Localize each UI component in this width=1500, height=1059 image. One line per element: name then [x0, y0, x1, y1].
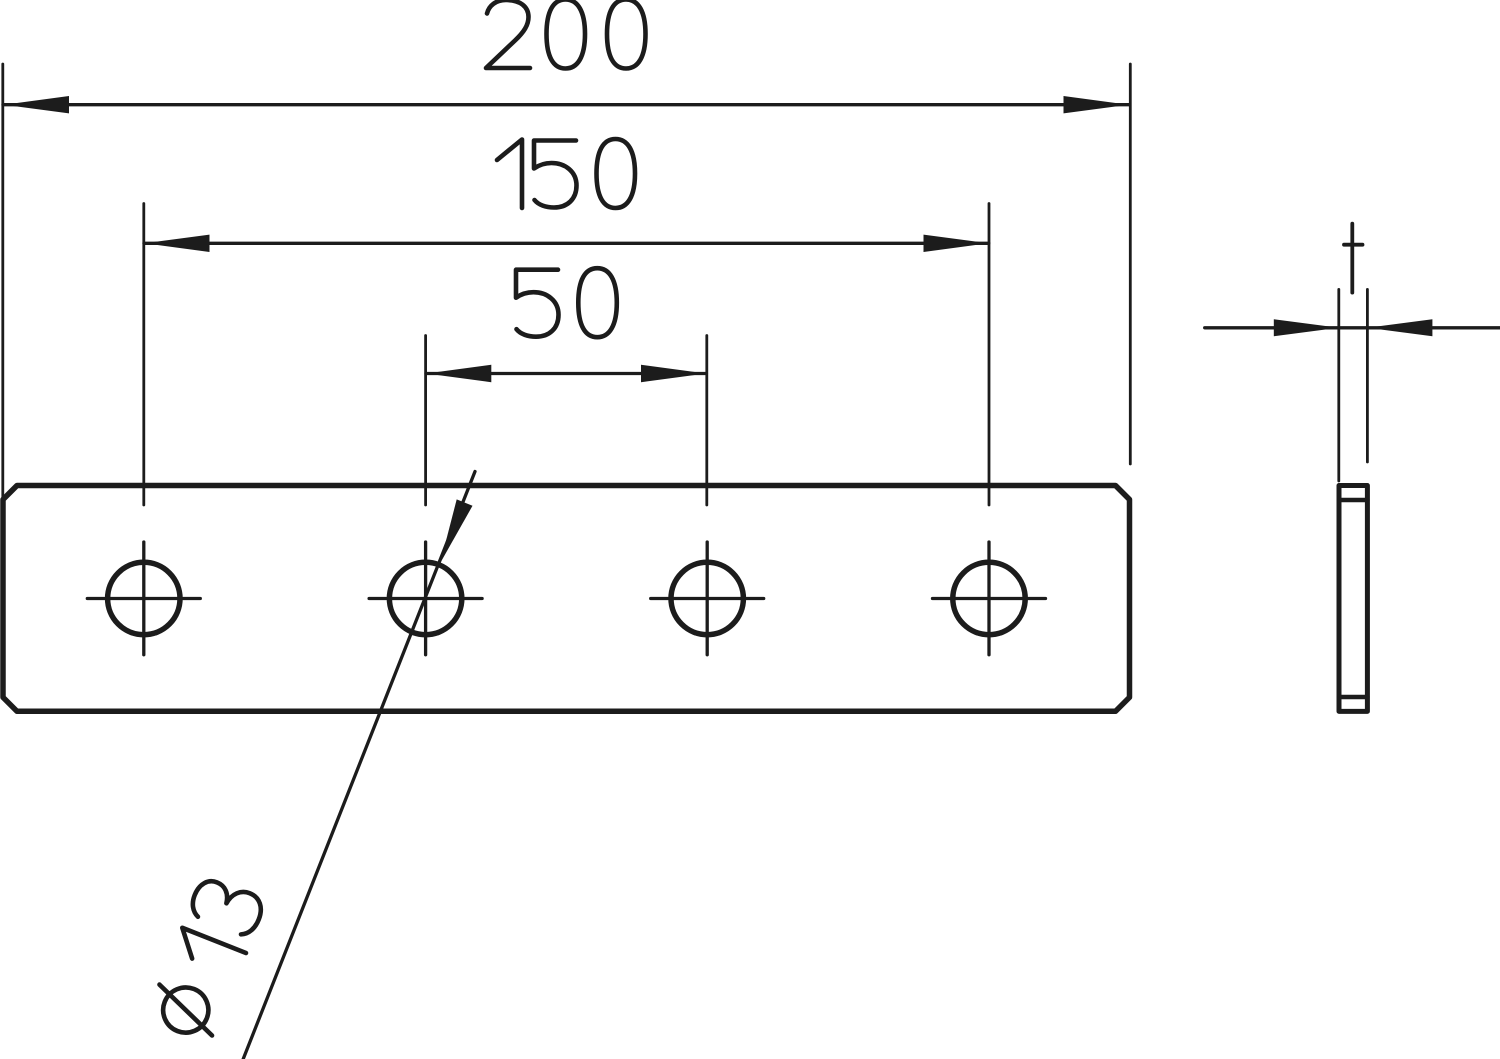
dimension text 50 — [516, 270, 559, 337]
dimension line 200 — [3, 103, 1130, 106]
extension line right for 150 — [988, 204, 991, 506]
hole 2 circle — [389, 562, 461, 634]
plate outline (front view, chamfered corners) — [3, 486, 1130, 712]
thickness label t — [1344, 224, 1363, 293]
hole 3 centerline horizontal — [651, 597, 764, 600]
arrowhead thickness right (points left) — [1367, 319, 1432, 336]
hole 3 centerline vertical — [706, 542, 709, 655]
extension line right for 50 — [705, 336, 708, 506]
dimension line 150 — [144, 242, 989, 245]
hole 1 circle — [108, 562, 180, 634]
extension line left for 150 — [142, 204, 145, 506]
arrowhead 200 right — [1064, 96, 1129, 113]
extension line left for 50 — [424, 336, 427, 506]
arrowhead 150 right — [924, 235, 989, 252]
arrowhead 50 right — [641, 365, 706, 382]
side view top chamfer line — [1339, 498, 1367, 503]
side view outline — [1339, 486, 1367, 712]
arrowhead thickness left (points right) — [1274, 319, 1339, 336]
hole diameter label Ø 13 (rotated along leader) — [146, 875, 267, 1044]
hole 1 centerline horizontal — [87, 597, 200, 600]
hole 4 circle — [953, 562, 1025, 634]
hole 2 centerline vertical — [424, 542, 427, 655]
arrowhead 200 left — [4, 96, 69, 113]
arrowhead 50 left — [426, 365, 491, 382]
extension line right for 200 — [1129, 64, 1132, 464]
extension line right for thickness — [1366, 289, 1369, 462]
arrowhead 150 left — [145, 235, 210, 252]
hole 1 centerline vertical — [142, 542, 145, 655]
dimension text 200 — [486, 0, 530, 68]
extension line left for thickness — [1337, 289, 1340, 481]
hole 4 centerline horizontal — [933, 597, 1046, 600]
dimension line 50 — [426, 372, 706, 375]
side view bottom chamfer line — [1339, 695, 1367, 700]
hole 3 circle — [671, 562, 743, 634]
leader line for hole diameter — [243, 472, 475, 1059]
dimension line thickness — [1205, 326, 1500, 329]
hole 4 centerline vertical — [987, 542, 990, 655]
hole 2 centerline horizontal — [369, 597, 482, 600]
dimension text 150 — [497, 140, 522, 209]
leader arrowhead at hole 2 — [440, 499, 472, 563]
extension line left for 200 — [1, 64, 4, 500]
